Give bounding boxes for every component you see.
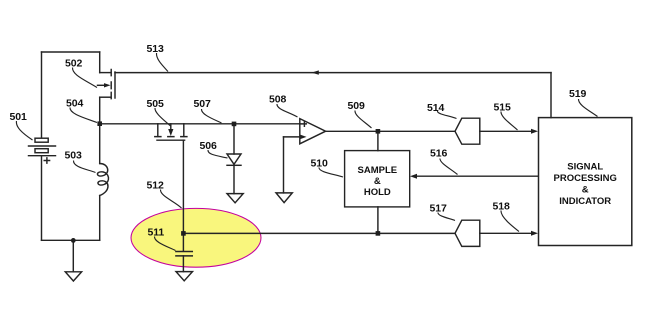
svg-text:518: 518 bbox=[493, 201, 510, 213]
svg-text:504: 504 bbox=[66, 98, 83, 110]
svg-text:513: 513 bbox=[147, 43, 164, 55]
svg-text:514: 514 bbox=[427, 102, 444, 114]
svg-text:505: 505 bbox=[147, 98, 164, 110]
svg-text:508: 508 bbox=[269, 94, 286, 106]
svg-text:511: 511 bbox=[148, 227, 165, 239]
svg-text:506: 506 bbox=[200, 140, 217, 152]
svg-text:516: 516 bbox=[430, 148, 447, 160]
svg-text:503: 503 bbox=[65, 150, 82, 162]
svg-text:SIGNAL: SIGNAL bbox=[567, 161, 603, 172]
svg-text:515: 515 bbox=[494, 102, 511, 114]
svg-text:PROCESSING: PROCESSING bbox=[554, 173, 617, 184]
svg-text:&: & bbox=[374, 176, 381, 187]
svg-text:HOLD: HOLD bbox=[364, 187, 391, 198]
svg-text:INDICATOR: INDICATOR bbox=[559, 196, 611, 207]
svg-text:510: 510 bbox=[311, 158, 328, 170]
svg-text:519: 519 bbox=[569, 88, 586, 100]
svg-text:&: & bbox=[582, 184, 589, 195]
svg-text:507: 507 bbox=[194, 98, 211, 110]
svg-text:512: 512 bbox=[147, 180, 164, 192]
svg-text:502: 502 bbox=[65, 58, 82, 70]
svg-text:501: 501 bbox=[10, 111, 27, 123]
svg-text:517: 517 bbox=[430, 203, 447, 215]
svg-text:SAMPLE: SAMPLE bbox=[358, 165, 398, 176]
svg-text:509: 509 bbox=[348, 100, 365, 112]
